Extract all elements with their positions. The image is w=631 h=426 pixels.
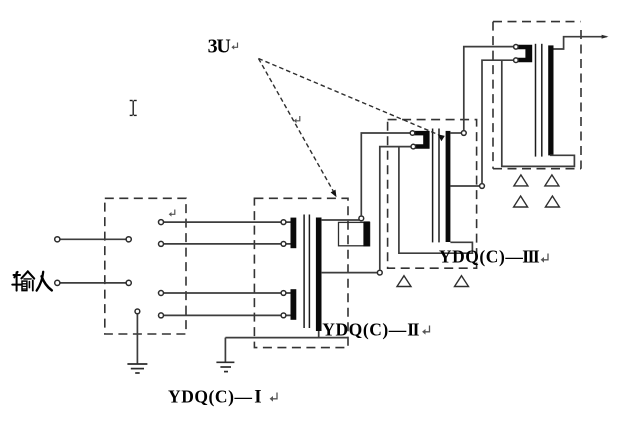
wire neutral to ground [136, 314, 138, 364]
node J1 [359, 216, 364, 221]
terminal T1 primary pins [281, 220, 286, 225]
insulator triangles under T3 [514, 175, 560, 207]
paragraph return mark near lead1 [169, 210, 175, 217]
cursor I-beam [130, 101, 137, 116]
wire input line 2 [57, 282, 128, 284]
transformer T2 HV winding bar [446, 131, 451, 242]
transformer T1 HV winding bar [316, 218, 322, 332]
svg-text:III: III [522, 247, 540, 267]
node J2 [377, 270, 382, 275]
paragraph return mark after label II [422, 326, 429, 335]
terminal input 2 right [126, 280, 131, 285]
switch enclosure (left dashed box) [105, 198, 186, 334]
wire T1 HV tap [321, 272, 378, 274]
wire riser J3 to T3 primary pin 1 [464, 47, 514, 131]
terminal T2 primary pin 2 [411, 144, 416, 149]
wire T2 HV top to node J3 [450, 132, 461, 134]
wire LV lead 1 to T1 [161, 221, 291, 223]
svg-text:YDQ(C)—: YDQ(C)— [322, 320, 407, 340]
tank enclosure box T3 [493, 22, 581, 169]
svg-text:YDQ(C)—: YDQ(C)— [168, 386, 253, 406]
svg-text:3U: 3U [208, 35, 231, 57]
transformer T1 excitation winding loop [339, 222, 370, 245]
paragraph return mark after label I [270, 393, 277, 402]
terminal lead1 left [159, 220, 164, 225]
insulator triangles under T2 [397, 276, 469, 287]
svg-text:I: I [254, 386, 261, 407]
terminal grounded neutral in switch box [135, 309, 140, 314]
transformer T1 primary winding bar lower [291, 289, 297, 320]
tank enclosure box T1 [254, 198, 348, 347]
node J4 [480, 184, 485, 189]
wire output 3U [554, 37, 607, 49]
label 输入 (hand-drawn) [12, 271, 52, 290]
wire LV lead 4 to T1 [161, 314, 291, 316]
terminal T2 primary pin 1 [410, 131, 415, 136]
wire T2 HV tap [450, 185, 479, 187]
transformer T3 HV winding bar [548, 45, 553, 155]
svg-text:YDQ(C)—: YDQ(C)— [439, 247, 524, 267]
wire riser J4 to T3 primary pin 2 [482, 60, 514, 183]
svg-text:II: II [407, 320, 419, 340]
ground G1 [127, 364, 147, 373]
wire T3 HV bottom return [502, 60, 575, 166]
terminal lead2 left [159, 241, 164, 246]
tank enclosure box T2 [388, 120, 477, 269]
wire LV lead 2 to T1 [161, 243, 291, 245]
wire T1 HV top to node J1 [321, 219, 359, 221]
terminal lead3 left [159, 291, 164, 296]
wire riser J1 to T2 primary pin 1 [361, 133, 410, 216]
transformer T1 primary winding bar upper [291, 218, 297, 249]
wire T1 HV bottom to ground [225, 331, 318, 338]
ground G2 [216, 362, 234, 371]
paragraph return mark after label III [541, 254, 548, 263]
paragraph return mark after 3U [231, 43, 237, 50]
wire LV lead 3 to T1 [161, 292, 291, 294]
terminal T3 primary pin 2 [514, 58, 519, 63]
transformer T2 primary winding (C shape) [413, 131, 429, 149]
terminal input 1 right [126, 237, 131, 242]
wire T2 HV bottom return [399, 147, 473, 254]
terminal lead4 left [159, 313, 164, 318]
paragraph return mark near arrow A [294, 116, 300, 123]
3U pointer dashed arrow B [259, 59, 439, 135]
terminal input 2 left [55, 280, 60, 285]
3U pointer dashed arrow A [259, 59, 334, 192]
terminal input 1 left [55, 237, 60, 242]
node J3 [461, 131, 466, 136]
wire input line 1 [57, 238, 128, 240]
output arrowhead [602, 35, 609, 39]
terminal T3 primary pin 1 [514, 45, 519, 50]
transformer T2 core [432, 129, 434, 243]
transformer T3 primary winding (C shape) [515, 45, 533, 63]
transformer T3 core [535, 44, 537, 157]
wire riser J2 to T2 primary pin 2 [380, 147, 411, 271]
transformer T1 core [303, 215, 305, 329]
